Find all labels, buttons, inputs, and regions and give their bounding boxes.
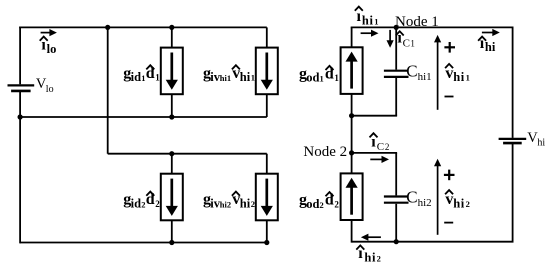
svg-text:2: 2: [377, 253, 381, 263]
junction dot source G3 top / lower-section rail: [169, 151, 174, 156]
dependent current source G4 (g_iv_hi2 v_hi2): [266, 154, 268, 174]
svg-text:hi2: hi2: [418, 197, 432, 209]
wire left rail between U1 and U2 (through Node 2): [351, 94, 353, 173]
dependent current source U1 (g_od1 d1): [341, 47, 363, 94]
voltage arrow v_hi2: [437, 165, 439, 235]
wire C_hi1 bottom rail to U1 bottom: [352, 115, 398, 117]
svg-text:C: C: [406, 187, 417, 206]
svg-text:hi: hi: [240, 197, 251, 211]
svg-text:hi: hi: [240, 70, 251, 84]
junction dot C_hi1 / Node 1 rail: [394, 25, 399, 30]
wire mid rail (V_lo - node): [20, 116, 267, 118]
svg-text:hi: hi: [364, 250, 376, 264]
svg-text:lo: lo: [46, 84, 54, 95]
junction dot source G3 bottom / bottom rail: [169, 240, 174, 245]
capacitor C_hi2 top lead: [395, 153, 397, 196]
svg-text:od: od: [306, 197, 319, 211]
svg-text:od: od: [306, 71, 319, 85]
svg-text:1: 1: [251, 73, 255, 83]
svg-text:hi: hi: [453, 70, 465, 84]
svg-text:id: id: [131, 70, 141, 84]
junction dot source G1 bottom / mid rail: [169, 114, 174, 119]
dependent current source G1 (g_id1 d1): [171, 27, 173, 47]
wire top rail of right circuit (Node 1): [351, 26, 514, 28]
svg-text:ı: ı: [357, 8, 362, 25]
voltage arrow v_hi1: [437, 41, 439, 110]
battery V_hi long plate: [499, 138, 527, 140]
svg-text:C: C: [403, 37, 410, 49]
wire bottom rail of left circuit: [20, 242, 267, 244]
svg-text:2: 2: [251, 199, 255, 209]
svg-text:1: 1: [334, 73, 339, 83]
plus sign v_hi1: [444, 46, 455, 48]
svg-text:lo: lo: [47, 42, 57, 56]
current arrow i_C2: [370, 158, 383, 160]
svg-text:2: 2: [155, 199, 160, 209]
junction dot C_hi2 / bottom rail: [394, 239, 399, 244]
battery V_lo short plate: [11, 90, 31, 93]
minus sign v_hi2: [444, 222, 453, 224]
current arrow i_lo: [41, 32, 51, 34]
svg-text:1: 1: [410, 38, 415, 48]
battery V_lo long plate: [8, 84, 35, 86]
svg-text:hi: hi: [537, 138, 545, 149]
svg-text:Node 1: Node 1: [395, 14, 439, 30]
svg-text:2: 2: [320, 200, 324, 210]
svg-text:C: C: [406, 62, 417, 81]
capacitor C_hi2 bottom lead: [395, 204, 397, 242]
current arrow i_hi2 (points left): [367, 236, 381, 238]
junction dot jog / top rail: [105, 25, 110, 30]
dependent current source G2 (g_iv_hi1 v_hi1): [266, 27, 268, 47]
svg-text:Node 2: Node 2: [303, 144, 347, 160]
battery V_hi short plate: [503, 142, 522, 145]
svg-text:hi: hi: [453, 196, 465, 210]
wire left rail below U2: [351, 220, 353, 243]
wire left rail lower segment (V_lo to bottom rail): [19, 91, 21, 244]
svg-text:1: 1: [320, 74, 324, 84]
junction dot source G4 bottom / bottom rail end: [264, 240, 269, 245]
dependent current source G3 (g_id2 d2): [171, 154, 173, 174]
capacitor C_hi1 plates: [384, 70, 409, 72]
svg-text:hi: hi: [485, 40, 496, 54]
wire top rail of left circuit (V_lo + node): [19, 26, 267, 28]
current arrow i_hi: [482, 32, 494, 34]
svg-text:2: 2: [466, 199, 470, 209]
plus sign v_hi2: [444, 174, 455, 176]
junction dot source G1 top: [169, 25, 174, 30]
wire right rail lower (V_hi to bottom rail): [512, 143, 514, 242]
capacitor C_hi1 top lead: [395, 27, 397, 69]
svg-text:hi: hi: [362, 14, 374, 28]
current arrow i_hi1: [361, 32, 373, 34]
svg-text:2: 2: [385, 142, 390, 152]
minus sign v_hi1: [445, 96, 454, 98]
wire lower-section top rail: [108, 153, 267, 155]
capacitor C_hi1 bottom lead: [395, 78, 397, 116]
junction dot Node 2: [349, 150, 354, 155]
svg-text:1: 1: [466, 73, 470, 83]
dependent current source U2 (g_od2 d2): [341, 173, 363, 220]
svg-text:id: id: [131, 197, 141, 211]
svg-text:1: 1: [374, 17, 378, 27]
svg-text:2: 2: [334, 199, 339, 209]
svg-text:C: C: [377, 141, 384, 153]
wire right rail upper (Node 1 to V_hi): [512, 27, 514, 137]
wire jog from top rail down to lower-section rail (crossover, no junction): [107, 27, 109, 153]
capacitor C_hi2 plates: [384, 195, 409, 197]
wire right circuit left rail upper (top rail to U1): [351, 27, 353, 47]
current arrow i_C1: [389, 30, 391, 42]
svg-text:1: 1: [155, 73, 160, 83]
svg-text:hi1: hi1: [220, 73, 231, 83]
svg-text:hi2: hi2: [220, 200, 231, 210]
wire left rail upper segment (top rail to V_lo): [19, 27, 21, 85]
wire bottom rail of right circuit: [352, 241, 514, 243]
svg-text:hi1: hi1: [418, 71, 432, 83]
junction dot left rail / mid rail: [18, 114, 23, 119]
wire Node 2 rail: [352, 152, 398, 154]
junction dot U1 bottom rail: [349, 113, 354, 118]
